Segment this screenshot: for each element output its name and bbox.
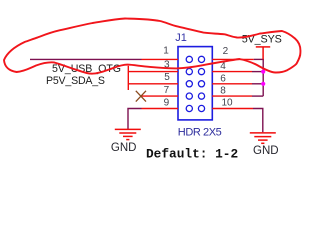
wire pin8 red segment <box>212 95 252 97</box>
svg-text:GND: GND <box>253 145 279 157</box>
wire pin4 maroon segment <box>252 71 263 73</box>
svg-text:7: 7 <box>164 85 170 96</box>
wire pin2 maroon segment <box>254 58 264 60</box>
wire pin8 maroon segment <box>252 95 263 97</box>
pin 7 circle <box>186 93 192 99</box>
wire pin4 red segment <box>212 71 252 73</box>
pin 8 circle <box>198 93 204 99</box>
svg-text:5V_SYS: 5V_SYS <box>242 33 282 45</box>
pin 10 circle <box>198 105 204 111</box>
svg-text:2: 2 <box>223 46 229 57</box>
ground symbol right <box>250 133 276 143</box>
svg-text:GND: GND <box>111 142 137 154</box>
pin 5 circle <box>186 81 192 87</box>
junction dot pin6 <box>261 82 265 86</box>
pin 6 circle <box>198 81 204 87</box>
no-connect X on pin7 <box>136 91 146 102</box>
wire pin5 <box>128 83 178 85</box>
svg-text:P5V_SDA_S: P5V_SDA_S <box>46 75 105 87</box>
pin 4 circle <box>198 69 204 75</box>
wire pin9 maroon corner to GND <box>128 109 142 130</box>
pin 1 circle <box>186 56 192 62</box>
wire pin10 maroon corner to GND <box>253 109 263 133</box>
wire pin6 maroon segment <box>252 83 263 85</box>
wire vertical stub joining pins 3-5 <box>127 66 129 90</box>
svg-text:J1: J1 <box>175 32 187 44</box>
pin 9 circle <box>186 105 192 111</box>
svg-text:5: 5 <box>164 72 170 83</box>
junction dot pin4 <box>261 70 265 74</box>
svg-text:6: 6 <box>220 73 226 84</box>
wire pin3 <box>128 71 178 73</box>
svg-text:8: 8 <box>220 86 226 97</box>
wire pin9 red segment <box>142 108 179 110</box>
ground symbol left <box>115 129 141 139</box>
wire pin10 red segment <box>212 108 253 110</box>
annotation freehand red loop <box>4 19 300 74</box>
wire pin6 red segment <box>212 83 252 85</box>
svg-text:Default: 1-2: Default: 1-2 <box>146 147 238 162</box>
power symbol 5V_SYS <box>256 47 270 60</box>
svg-text:HDR 2X5: HDR 2X5 <box>178 126 222 138</box>
pin 2 circle <box>198 56 204 62</box>
wire pin2 red segment <box>212 58 254 60</box>
wire pin1 red segment <box>142 58 179 60</box>
svg-text:10: 10 <box>222 98 234 109</box>
wire pin1 maroon segment <box>30 58 142 60</box>
connector J1 body <box>178 47 212 120</box>
svg-text:9: 9 <box>164 97 170 108</box>
pin 3 circle <box>186 69 192 75</box>
wire pin7 <box>141 95 178 97</box>
bus vertical maroon pins 2-8 <box>262 59 264 96</box>
svg-text:1: 1 <box>163 46 169 57</box>
